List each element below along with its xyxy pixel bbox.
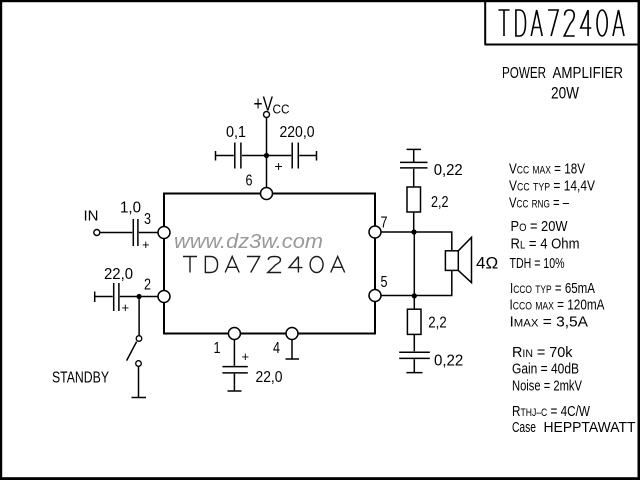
pin 5 bbox=[369, 290, 381, 302]
capacitor C 22,0 pin1 bbox=[222, 367, 247, 373]
svg-text:Noise = 2mkV: Noise = 2mkV bbox=[512, 378, 582, 395]
resistor R 2,2 top bbox=[407, 187, 421, 212]
spec column bbox=[509, 161, 636, 437]
wire C to gnd top bbox=[413, 150, 415, 162]
svg-text:2: 2 bbox=[144, 277, 151, 294]
svg-text:4Ω: 4Ω bbox=[476, 254, 498, 273]
title text TDA7240A (plotter strokes) bbox=[499, 10, 625, 36]
svg-text:+V: +V bbox=[254, 94, 274, 116]
wire junction up bbox=[413, 212, 415, 231]
svg-text:2,2: 2,2 bbox=[431, 194, 449, 211]
svg-text:+: + bbox=[242, 349, 250, 364]
svg-text:POWER: POWER bbox=[502, 65, 546, 82]
junction node pin2 bbox=[137, 294, 142, 299]
title box bbox=[485, 0, 640, 45]
wire R to C bbox=[413, 169, 415, 187]
IN terminal bbox=[94, 230, 100, 236]
svg-text:6: 6 bbox=[246, 173, 253, 190]
svg-text:1,0: 1,0 bbox=[120, 200, 141, 217]
svg-text:20W: 20W bbox=[551, 84, 579, 103]
pin 3 bbox=[158, 227, 170, 239]
wire junction down bbox=[413, 233, 415, 309]
svg-text:0,1: 0,1 bbox=[226, 124, 246, 141]
svg-text:7: 7 bbox=[381, 215, 388, 232]
pin 6 bbox=[261, 188, 273, 200]
svg-text:TDH = 10%: TDH = 10% bbox=[510, 255, 565, 272]
svg-text:+: + bbox=[142, 237, 150, 252]
svg-text:0,22: 0,22 bbox=[434, 353, 463, 370]
ground bottom boucherot bbox=[406, 372, 422, 374]
junction node pin7 bbox=[411, 229, 416, 234]
svg-text:+: + bbox=[275, 158, 283, 174]
pin 4 bbox=[286, 328, 298, 340]
svg-text:0,22: 0,22 bbox=[434, 162, 463, 179]
junction node pin5 bbox=[412, 293, 417, 298]
wire pin4 down bbox=[291, 340, 293, 359]
capacitor C 0,22 top bbox=[400, 162, 428, 168]
capacitor C 0,22 bottom bbox=[399, 352, 430, 358]
wire standby drop bbox=[138, 299, 140, 336]
wire pin1 down bbox=[233, 340, 235, 366]
wire pin5 rail bbox=[381, 295, 453, 297]
svg-text:220,0: 220,0 bbox=[280, 124, 315, 141]
wire Vcc stem bbox=[266, 118, 268, 188]
svg-text:Gain = 40dB: Gain = 40dB bbox=[512, 361, 579, 378]
svg-text:2,2: 2,2 bbox=[428, 315, 446, 332]
ground pin4 bbox=[286, 358, 300, 360]
svg-text:www.dz3w.com: www.dz3w.com bbox=[174, 231, 323, 253]
ground standby bbox=[132, 397, 147, 399]
svg-text:5: 5 bbox=[381, 274, 388, 291]
capacitor C 1,0 bbox=[133, 219, 158, 246]
svg-text:CC: CC bbox=[273, 102, 290, 117]
svg-text:1: 1 bbox=[214, 340, 221, 357]
speaker LS 4ohm bbox=[445, 251, 458, 271]
resistor R 2,2 bottom bbox=[407, 309, 421, 334]
ground top boucherot bbox=[407, 148, 421, 150]
svg-text:HEPPTAWATT: HEPPTAWATT bbox=[544, 419, 636, 436]
junction Vcc node bbox=[264, 153, 269, 158]
svg-text:22,0: 22,0 bbox=[256, 369, 283, 386]
capacitor C 220,0 bbox=[242, 143, 317, 169]
+Vcc terminal bbox=[264, 112, 270, 118]
svg-text:+: + bbox=[122, 300, 130, 315]
svg-text:IN: IN bbox=[84, 208, 99, 225]
wire speaker bottom bbox=[451, 270, 453, 295]
capacitor C 0,1 bbox=[216, 143, 241, 169]
wire R to C bottom bbox=[413, 334, 415, 351]
wire IN to C1 bbox=[100, 232, 132, 234]
wire C to gnd bbox=[233, 374, 235, 391]
pin 7 bbox=[369, 226, 381, 238]
svg-text:AMPLIFIER: AMPLIFIER bbox=[553, 65, 624, 82]
IC box U1 TDA7240A bbox=[164, 194, 375, 334]
switch SW standby bbox=[136, 336, 142, 342]
label TDA7240A inside IC (plotter strokes) bbox=[183, 257, 345, 273]
capacitor C 22,0 input2 bbox=[95, 283, 158, 311]
pin 2 bbox=[158, 291, 170, 303]
svg-text:STANDBY: STANDBY bbox=[52, 370, 109, 387]
wire pin7 rail bbox=[381, 231, 453, 233]
svg-text:RIN = 70k: RIN = 70k bbox=[512, 344, 573, 361]
svg-text:3: 3 bbox=[144, 211, 151, 228]
pin 1 bbox=[228, 328, 240, 340]
svg-text:Case: Case bbox=[512, 419, 536, 436]
svg-text:4: 4 bbox=[273, 340, 280, 357]
svg-text:22,0: 22,0 bbox=[104, 266, 133, 283]
wire speaker top bbox=[451, 232, 453, 251]
ground pin1 cap bbox=[228, 390, 242, 392]
wire C to gnd bottom bbox=[413, 359, 415, 372]
wire switch to gnd bbox=[138, 366, 140, 397]
